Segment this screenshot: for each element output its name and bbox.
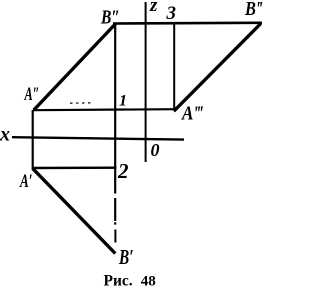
segment A'''B''' (profile projection, thick) [174,24,261,112]
svg-text:B‴: B‴ [244,0,263,20]
svg-text:z: z [149,0,158,16]
svg-text:1: 1 [119,93,127,110]
svg-text:A‴: A‴ [180,103,203,125]
scan dots above link [70,102,91,104]
wire: link B'' to B''' (top horizontal) [113,21,262,24]
svg-text:2: 2 [117,159,129,183]
wire: projection line A''-A' (vertical) [32,110,34,169]
segment A''B'' (frontal projection, thick) [34,24,116,111]
svg-text:B″: B″ [100,6,120,28]
svg-text:A′: A′ [19,171,32,192]
wire: link A''-A''' (horizontal through 1) [33,109,176,110]
svg-text:B′: B′ [118,245,133,269]
svg-text:A″: A″ [24,84,40,105]
svg-text:Рис.: Рис. [104,273,133,290]
wire: projection line B''-B' (vertical, with small gaps) [114,24,116,243]
svg-text:48: 48 [141,274,156,290]
segment A'B' (horizontal projection, thick) [33,168,116,253]
svg-text:0: 0 [151,140,160,160]
z axis [145,2,147,162]
x axis [12,137,184,139]
wire: link A'-2 (horizontal) [32,166,116,169]
svg-text:3: 3 [166,3,177,24]
svg-text:x: x [0,124,10,146]
wire: vertical link 3-A''' [173,24,175,108]
